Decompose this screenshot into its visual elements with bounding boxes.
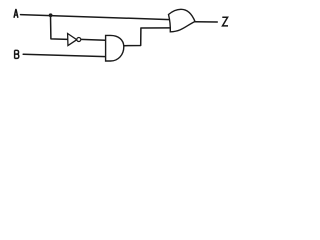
wire branch vertical from node [51,15,68,39]
inverter U1 triangle [68,34,77,46]
and-gate U2 [106,35,124,61]
inverter U1 bubble [77,38,81,42]
wire inverter output to AND gate [81,38,106,41]
wire AND output elbow to OR gate [124,28,170,46]
label Z [222,17,228,26]
or-gate U3 [169,9,196,32]
wire Z output [195,21,217,23]
label A [14,9,18,17]
wire B horizontal [23,54,105,56]
label B [15,50,19,58]
node A junction dot [49,13,53,17]
wire A horizontal [21,15,170,20]
